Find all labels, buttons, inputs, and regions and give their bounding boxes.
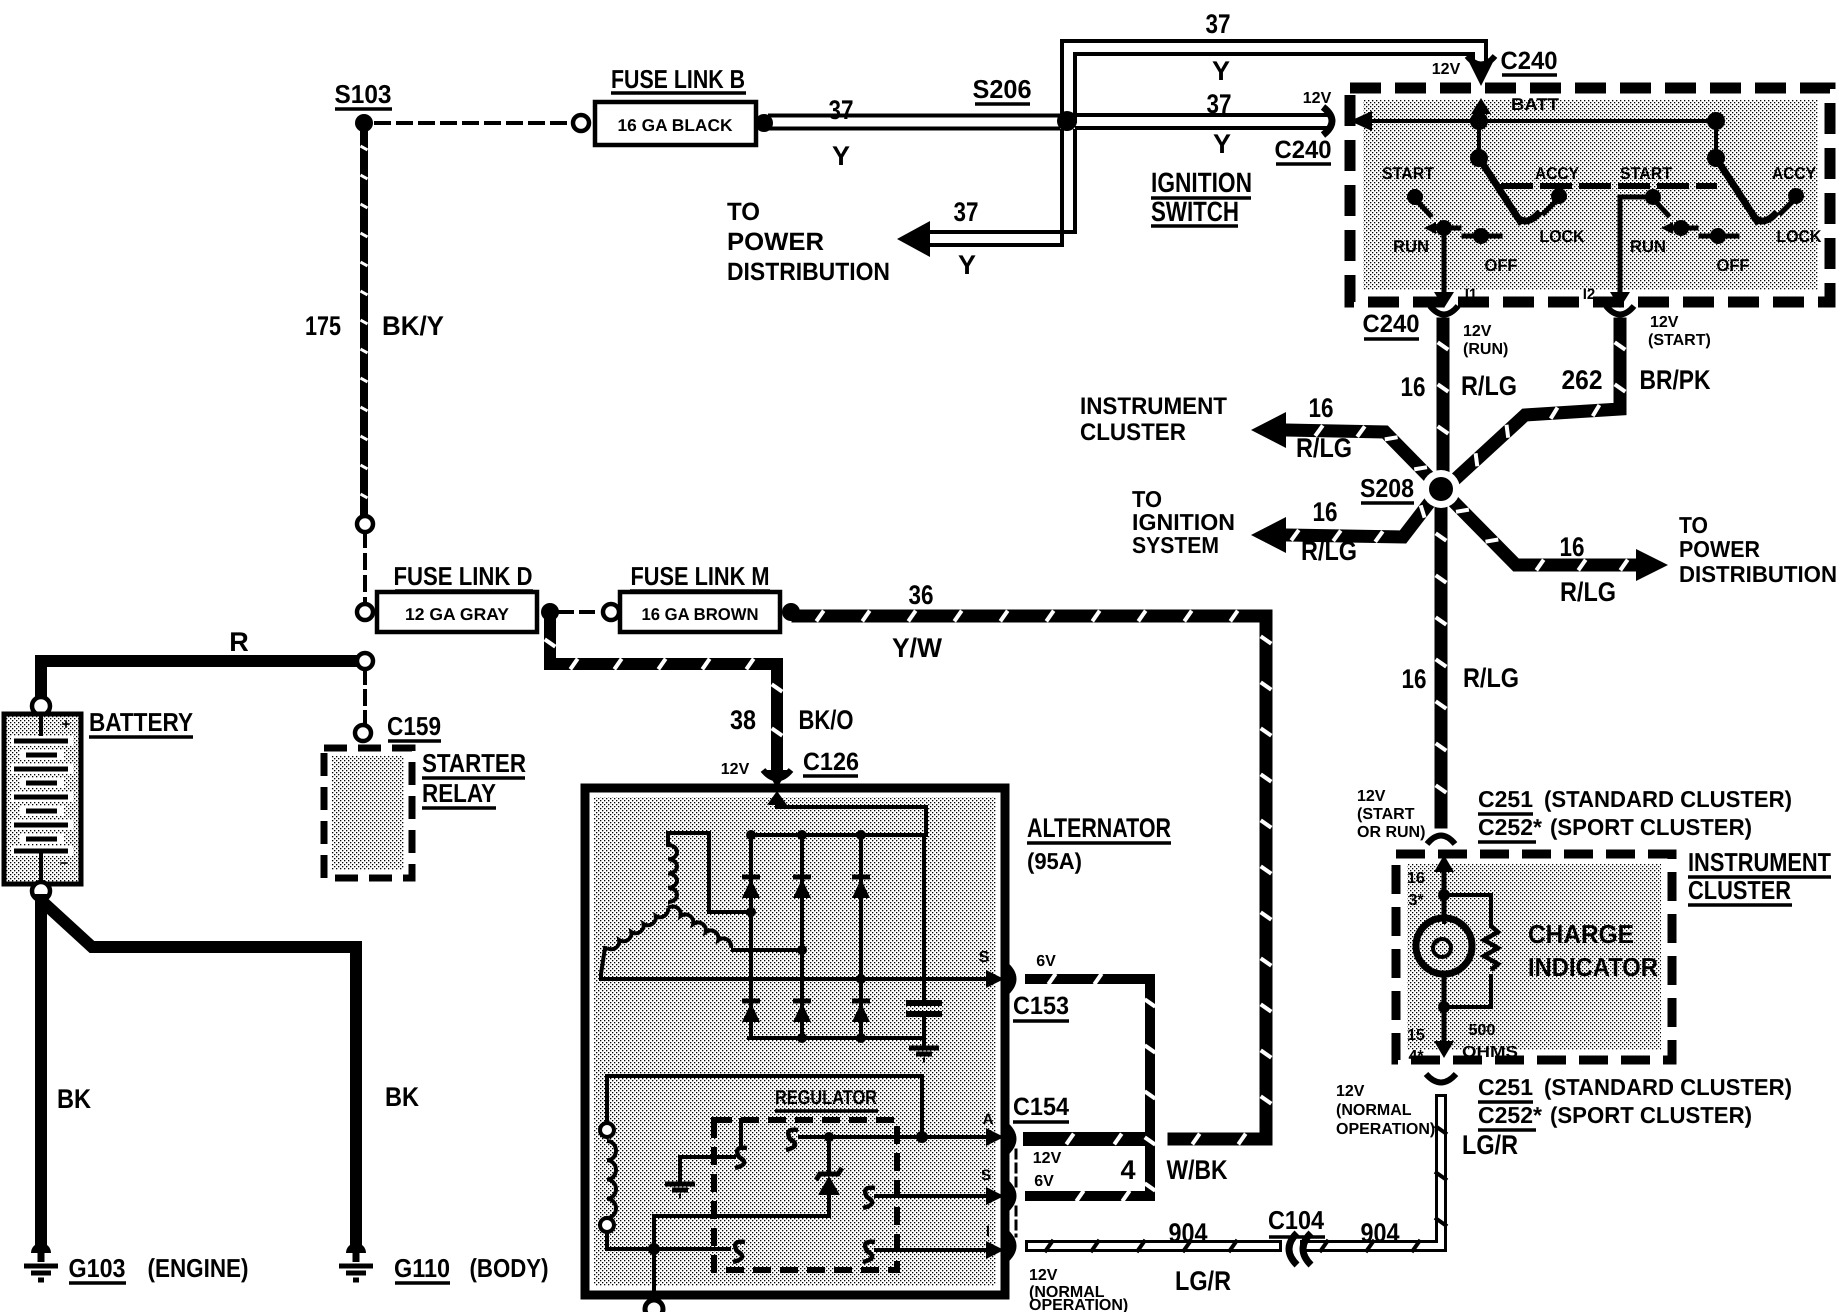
connector C240 bottom bbox=[1363, 306, 1635, 339]
svg-text:36: 36 bbox=[909, 580, 934, 610]
svg-text:CHARGE: CHARGE bbox=[1528, 919, 1634, 949]
label 37 Y lower bbox=[954, 197, 979, 280]
svg-text:LG/R: LG/R bbox=[1175, 1266, 1231, 1296]
fuse link D right terminal bbox=[541, 603, 559, 621]
svg-text:500: 500 bbox=[1469, 1022, 1496, 1039]
label 12V normal operation left bbox=[1029, 1267, 1128, 1312]
svg-text:16: 16 bbox=[1560, 532, 1585, 562]
svg-text:262: 262 bbox=[1562, 365, 1603, 395]
label 37 Y top bbox=[1206, 9, 1231, 86]
svg-text:16: 16 bbox=[1309, 393, 1334, 423]
svg-text:BK/O: BK/O bbox=[799, 705, 854, 735]
svg-text:R/LG: R/LG bbox=[1301, 536, 1357, 566]
svg-text:A: A bbox=[983, 1111, 994, 1128]
svg-text:INDICATOR: INDICATOR bbox=[1528, 952, 1658, 982]
svg-text:INSTRUMENT: INSTRUMENT bbox=[1080, 393, 1227, 420]
wire 37 Y S206 up to C240 top bbox=[1062, 41, 1486, 121]
svg-text:904: 904 bbox=[1361, 1218, 1400, 1248]
svg-text:SYSTEM: SYSTEM bbox=[1132, 532, 1219, 558]
fuse link M body bbox=[620, 592, 780, 632]
ignition switch left wiper bbox=[1479, 158, 1540, 221]
svg-text:12V: 12V bbox=[1463, 323, 1492, 340]
label to ignition system bbox=[1132, 486, 1235, 558]
connector C251 C252 lower bbox=[1426, 1074, 1792, 1130]
wire R battery to junction bbox=[41, 661, 355, 706]
label to power distribution (right) bbox=[1679, 512, 1837, 587]
field coil bbox=[600, 1123, 616, 1249]
svg-text:37: 37 bbox=[954, 197, 979, 227]
bulb to lower node bbox=[1438, 974, 1450, 1013]
wire dashed D to M bbox=[560, 610, 602, 614]
wire I2 inside switch bbox=[1610, 197, 1653, 308]
node A junction bbox=[916, 1131, 928, 1143]
arrow to power distribution (top) bbox=[897, 221, 930, 257]
diode column 1 bbox=[742, 835, 760, 1038]
fuse link M label bbox=[630, 561, 770, 591]
svg-text:BK: BK bbox=[57, 1084, 91, 1114]
label C159 bbox=[387, 711, 441, 741]
svg-text:12V: 12V bbox=[1029, 1267, 1058, 1284]
right RUN contact bbox=[1661, 220, 1696, 236]
wire 262 BR/PK from I2 bbox=[1449, 324, 1625, 485]
regulator S output curl bbox=[863, 1167, 1004, 1208]
wire 16 R/LG to instrument cluster bbox=[1251, 412, 1436, 484]
label 37 Y mid bbox=[1207, 89, 1232, 159]
svg-text:C159: C159 bbox=[387, 711, 441, 741]
wire dashed to fuse link D bbox=[363, 533, 367, 602]
svg-text:FUSE LINK D: FUSE LINK D bbox=[394, 561, 533, 591]
svg-text:(95A): (95A) bbox=[1027, 848, 1082, 874]
svg-text:R: R bbox=[229, 627, 249, 657]
svg-text:(ENGINE): (ENGINE) bbox=[148, 1253, 249, 1283]
svg-text:(START: (START bbox=[1357, 806, 1415, 823]
svg-text:R/LG: R/LG bbox=[1461, 371, 1517, 401]
alternator ground lead bbox=[652, 1252, 656, 1302]
starter relay label bbox=[422, 748, 526, 808]
svg-text:C104: C104 bbox=[1268, 1205, 1324, 1235]
left OFF contact bbox=[1464, 228, 1500, 244]
label 37 Y bbox=[829, 95, 854, 171]
svg-text:OR RUN): OR RUN) bbox=[1357, 824, 1425, 841]
svg-text:RELAY: RELAY bbox=[422, 778, 496, 808]
svg-text:16: 16 bbox=[1401, 372, 1426, 402]
svg-text:OFF: OFF bbox=[1717, 256, 1750, 275]
label 16 3* bbox=[1407, 870, 1425, 909]
ignition switch labels left bbox=[1382, 164, 1585, 275]
label 12V normal operation right bbox=[1336, 1083, 1435, 1138]
svg-text:BATT: BATT bbox=[1511, 95, 1560, 114]
svg-text:904: 904 bbox=[1169, 1218, 1208, 1248]
connector C251 C252 upper bbox=[1427, 786, 1792, 844]
svg-text:37: 37 bbox=[1207, 89, 1232, 119]
connector C154 bracket bbox=[1015, 1150, 1018, 1236]
svg-text:Y: Y bbox=[1212, 56, 1230, 86]
svg-text:OFF: OFF bbox=[1485, 256, 1518, 275]
left START contact bbox=[1407, 189, 1430, 215]
label BATT bbox=[1511, 95, 1560, 114]
alternator box bbox=[585, 788, 1005, 1295]
label instrument cluster (arrow) bbox=[1080, 393, 1227, 446]
svg-text:LOCK: LOCK bbox=[1540, 227, 1586, 246]
label 904 C104 bbox=[1169, 1205, 1400, 1296]
diode column 2 bbox=[793, 835, 811, 1038]
svg-text:C251: C251 bbox=[1478, 1074, 1533, 1100]
label R bbox=[229, 627, 249, 657]
label 16 R/LG upper bbox=[1401, 371, 1518, 402]
svg-text:12V: 12V bbox=[1357, 788, 1386, 805]
wire 175 BK/Y bbox=[361, 132, 368, 516]
wire 38 BK/O bbox=[545, 621, 783, 764]
label 262 BR/PK bbox=[1562, 365, 1711, 395]
svg-text:R/LG: R/LG bbox=[1560, 577, 1616, 607]
svg-text:TO: TO bbox=[727, 198, 760, 226]
svg-text:S103: S103 bbox=[335, 79, 392, 109]
svg-text:FUSE LINK M: FUSE LINK M bbox=[631, 561, 770, 591]
battery bbox=[4, 714, 81, 884]
svg-text:W/BK: W/BK bbox=[1167, 1155, 1228, 1185]
wire dashed S103 to fuse link B bbox=[376, 121, 568, 125]
svg-text:OPERATION): OPERATION) bbox=[1029, 1297, 1128, 1312]
label 4 W/BK bbox=[1120, 1155, 1227, 1185]
svg-text:(SPORT CLUSTER): (SPORT CLUSTER) bbox=[1550, 1102, 1752, 1128]
regulator internal wire bbox=[654, 1216, 829, 1244]
connector C154 pin I bbox=[1004, 1231, 1013, 1261]
ignition switch box bbox=[1350, 88, 1830, 302]
svg-text:ALTERNATOR: ALTERNATOR bbox=[1027, 813, 1171, 843]
svg-text:4: 4 bbox=[1120, 1155, 1135, 1185]
regulator I output curl bbox=[863, 1223, 1004, 1262]
svg-text:I1: I1 bbox=[1465, 286, 1478, 303]
label 12V C240 left bbox=[1275, 90, 1332, 164]
field supply wire from A node bbox=[607, 1076, 922, 1132]
svg-text:DISTRIBUTION: DISTRIBUTION bbox=[727, 258, 890, 286]
regulator ground branch bbox=[665, 1157, 734, 1196]
connector C154 pin 12V bbox=[1004, 1124, 1062, 1167]
svg-text:CLUSTER: CLUSTER bbox=[1080, 419, 1186, 446]
regulator bottom rail bbox=[607, 1242, 745, 1262]
svg-text:12V: 12V bbox=[1432, 61, 1461, 78]
label 12V C240 top bbox=[1432, 47, 1558, 78]
ignition switch left pivot bbox=[1470, 112, 1488, 167]
right START contact bbox=[1645, 189, 1668, 215]
svg-text:INSTRUMENT: INSTRUMENT bbox=[1688, 847, 1831, 877]
svg-text:I2: I2 bbox=[1583, 286, 1596, 303]
svg-text:12V: 12V bbox=[1650, 314, 1679, 331]
alternator ground terminal bbox=[645, 1300, 663, 1312]
left RUN contact bbox=[1424, 220, 1459, 236]
svg-text:STARTER: STARTER bbox=[422, 748, 526, 778]
wire 37 Y fuse link B to S206 bbox=[770, 116, 1058, 129]
regulator box bbox=[714, 1120, 897, 1270]
node S103 label bbox=[335, 79, 393, 109]
alternator internal ground bbox=[909, 1038, 939, 1060]
alternator rectifier top rail bbox=[746, 830, 926, 840]
svg-text:37: 37 bbox=[829, 95, 854, 125]
ignition switch right wiper bbox=[1716, 158, 1777, 221]
splice S206 label bbox=[973, 74, 1032, 104]
svg-text:(SPORT CLUSTER): (SPORT CLUSTER) bbox=[1550, 814, 1752, 840]
svg-text:BK/Y: BK/Y bbox=[382, 311, 444, 341]
svg-text:12V: 12V bbox=[721, 761, 750, 778]
svg-text:+: + bbox=[62, 716, 71, 733]
regulator label bbox=[775, 1087, 878, 1111]
svg-text:C240: C240 bbox=[1363, 310, 1420, 338]
fuse link D label bbox=[394, 561, 534, 591]
wire 37 Y S206 down to power distribution bbox=[930, 131, 1075, 245]
alternator B+ input wire bbox=[767, 791, 926, 833]
svg-text:S206: S206 bbox=[973, 74, 1032, 104]
ground G110 bbox=[339, 1243, 373, 1280]
fuse link B body bbox=[595, 102, 756, 145]
svg-text:6V: 6V bbox=[1034, 1173, 1054, 1190]
connector C159 terminal bbox=[355, 725, 371, 741]
node S103 bbox=[355, 114, 373, 132]
ignition switch batt feed bbox=[1350, 98, 1718, 131]
svg-text:C154: C154 bbox=[1013, 1093, 1069, 1121]
svg-text:12V: 12V bbox=[1033, 1150, 1062, 1167]
svg-text:3*: 3* bbox=[1408, 892, 1424, 909]
svg-text:POWER: POWER bbox=[1679, 536, 1760, 562]
wire 36 Y/W bbox=[798, 611, 1271, 1145]
svg-text:ACCY: ACCY bbox=[1535, 164, 1580, 183]
stator phase B winding bbox=[601, 906, 807, 974]
ground G103 bbox=[24, 1243, 58, 1280]
svg-text:(RUN): (RUN) bbox=[1463, 341, 1508, 358]
regulator transistor curl 1 bbox=[735, 1120, 747, 1168]
ignition switch labels right bbox=[1620, 164, 1822, 275]
wire I1 inside switch bbox=[1434, 232, 1454, 308]
connector C153 bbox=[1004, 953, 1069, 1021]
capacitor bbox=[906, 835, 942, 1038]
svg-text:BATTERY: BATTERY bbox=[89, 707, 193, 737]
svg-text:37: 37 bbox=[1206, 9, 1231, 39]
svg-text:TO: TO bbox=[1679, 512, 1708, 538]
cluster output wire bbox=[1434, 1007, 1454, 1058]
ignition switch right pivot bbox=[1707, 112, 1725, 167]
svg-text:6V: 6V bbox=[1036, 953, 1056, 970]
left ACCY contact bbox=[1544, 188, 1567, 213]
label 15 4* bbox=[1407, 1027, 1425, 1065]
zener diode bbox=[816, 1132, 842, 1216]
fuse link B left terminal bbox=[573, 115, 589, 131]
label 16 R/LG to power bbox=[1560, 532, 1617, 607]
svg-text:(BODY): (BODY) bbox=[470, 1253, 549, 1283]
svg-text:C153: C153 bbox=[1013, 992, 1069, 1020]
svg-text:S: S bbox=[981, 1167, 991, 1184]
svg-text:12V: 12V bbox=[1303, 90, 1332, 107]
svg-text:C252*: C252* bbox=[1478, 1102, 1542, 1128]
svg-text:Y/W: Y/W bbox=[892, 633, 943, 663]
svg-text:Y: Y bbox=[958, 250, 976, 280]
svg-text:CLUSTER: CLUSTER bbox=[1688, 875, 1791, 905]
label BK left bbox=[57, 1084, 91, 1114]
svg-text:BR/PK: BR/PK bbox=[1640, 365, 1711, 395]
svg-text:175: 175 bbox=[305, 311, 341, 341]
fuse link B label bbox=[611, 64, 746, 94]
fuse link D left terminal bbox=[357, 604, 373, 620]
starter relay box bbox=[324, 748, 412, 878]
label I1 I2 bbox=[1465, 286, 1596, 303]
fuse link B right terminal bbox=[755, 114, 773, 132]
wire 16 R/LG to ignition system bbox=[1251, 494, 1436, 553]
wire BK to G110 bbox=[44, 903, 356, 1243]
resistor 500 ohms bbox=[1444, 895, 1498, 1007]
label 36 Y/W bbox=[892, 580, 943, 663]
label 16 R/LG to cluster bbox=[1296, 393, 1352, 463]
svg-text:SWITCH: SWITCH bbox=[1151, 196, 1239, 227]
instrument cluster box bbox=[1396, 854, 1672, 1060]
wire 16 R/LG down to cluster bbox=[1436, 497, 1447, 822]
wire 37 Y S206 to C240 left bbox=[1077, 115, 1326, 128]
svg-text:Y: Y bbox=[1213, 129, 1231, 159]
svg-text:START: START bbox=[1382, 164, 1435, 183]
terminal circle below 175 wire bbox=[357, 516, 373, 532]
svg-text:15: 15 bbox=[1407, 1027, 1425, 1044]
connector C240 left entry bbox=[1323, 107, 1332, 135]
label 38 BK/O bbox=[730, 705, 854, 735]
mechanical linkage dashes bbox=[1504, 183, 1714, 189]
svg-text:OHMS: OHMS bbox=[1462, 1044, 1518, 1061]
cluster feed wire bbox=[1434, 855, 1454, 917]
label 16 R/LG lower bbox=[1402, 663, 1520, 694]
label 12V start or run bbox=[1357, 788, 1425, 841]
svg-text:START: START bbox=[1620, 164, 1673, 183]
svg-text:−: − bbox=[60, 855, 69, 872]
label G110 (BODY) bbox=[394, 1253, 549, 1283]
svg-text:C252*: C252* bbox=[1478, 814, 1542, 840]
splice S208 label bbox=[1360, 473, 1414, 503]
svg-text:16: 16 bbox=[1402, 664, 1427, 694]
right ACCY contact bbox=[1781, 188, 1804, 213]
svg-text:R/LG: R/LG bbox=[1296, 433, 1352, 463]
label LG/R right bbox=[1462, 1130, 1518, 1160]
svg-text:FUSE LINK B: FUSE LINK B bbox=[611, 64, 745, 94]
svg-text:C126: C126 bbox=[803, 748, 859, 776]
label ignition switch bbox=[1151, 167, 1252, 227]
svg-text:(STANDARD CLUSTER): (STANDARD CLUSTER) bbox=[1544, 1074, 1792, 1100]
wire 4 W/BK to C154 bbox=[1030, 1134, 1140, 1145]
svg-text:C240: C240 bbox=[1501, 47, 1558, 75]
svg-text:12 GA GRAY: 12 GA GRAY bbox=[405, 605, 510, 624]
svg-text:G110: G110 bbox=[394, 1253, 450, 1283]
svg-text:16 GA BLACK: 16 GA BLACK bbox=[618, 116, 734, 135]
svg-text:(START): (START) bbox=[1648, 332, 1711, 349]
svg-text:ACCY: ACCY bbox=[1772, 164, 1817, 183]
svg-text:I: I bbox=[986, 1223, 990, 1240]
svg-text:C251: C251 bbox=[1478, 786, 1533, 812]
svg-text:12V: 12V bbox=[1336, 1083, 1365, 1100]
connector C104 bbox=[1289, 1233, 1311, 1265]
svg-text:DISTRIBUTION: DISTRIBUTION bbox=[1679, 561, 1837, 587]
svg-text:REGULATOR: REGULATOR bbox=[775, 1087, 877, 1109]
svg-text:S208: S208 bbox=[1360, 473, 1414, 503]
svg-text:S: S bbox=[979, 949, 990, 966]
svg-text:RUN: RUN bbox=[1393, 237, 1429, 256]
label 175 BK/Y bbox=[305, 311, 444, 341]
svg-text:16: 16 bbox=[1407, 870, 1425, 887]
label to power distribution (top) bbox=[727, 198, 890, 286]
fuse link M right terminal bbox=[782, 603, 800, 621]
connector C154 pin 6V bbox=[1004, 1173, 1054, 1211]
svg-text:16 GA BROWN: 16 GA BROWN bbox=[642, 605, 759, 624]
svg-text:POWER: POWER bbox=[727, 228, 824, 256]
charge indicator bulb bbox=[1416, 918, 1472, 974]
label 16 R/LG to ignition bbox=[1301, 497, 1357, 566]
charge indicator label bbox=[1528, 919, 1658, 982]
label C154 bbox=[1013, 1093, 1069, 1122]
alternator A output bbox=[928, 1111, 1004, 1146]
svg-text:(STANDARD CLUSTER): (STANDARD CLUSTER) bbox=[1544, 786, 1792, 812]
wire BK to G103 bbox=[35, 900, 47, 1243]
stator phase C / S output bbox=[601, 949, 1004, 988]
svg-text:C240: C240 bbox=[1275, 136, 1332, 164]
connector C126 bbox=[721, 748, 859, 788]
svg-text:(NORMAL: (NORMAL bbox=[1336, 1102, 1412, 1119]
label 12V RUN bbox=[1463, 323, 1508, 358]
regulator input from A bbox=[786, 1130, 916, 1150]
svg-text:R/LG: R/LG bbox=[1463, 663, 1519, 693]
fuse link D body bbox=[377, 592, 537, 632]
right OFF contact bbox=[1701, 228, 1737, 244]
svg-text:BK: BK bbox=[385, 1082, 419, 1112]
battery label bbox=[89, 707, 193, 737]
label G103 (ENGINE) bbox=[69, 1253, 249, 1283]
svg-text:Y: Y bbox=[832, 141, 850, 171]
label 500 OHMS bbox=[1462, 1022, 1518, 1061]
label BK right bbox=[385, 1082, 419, 1112]
svg-text:RUN: RUN bbox=[1630, 237, 1666, 256]
svg-text:G103: G103 bbox=[69, 1253, 126, 1283]
connector C240 top entry bbox=[1467, 56, 1495, 86]
wire C153 to C154 bbox=[1030, 974, 1155, 1202]
instrument cluster label bbox=[1688, 847, 1831, 905]
alternator label bbox=[1027, 813, 1171, 874]
svg-text:LOCK: LOCK bbox=[1777, 227, 1823, 246]
battery bottom terminal bbox=[32, 882, 50, 900]
splice S208 bbox=[1422, 470, 1460, 508]
wire 16 R/LG from I1 bbox=[1438, 324, 1449, 478]
svg-text:38: 38 bbox=[730, 705, 756, 735]
label 12V START bbox=[1648, 314, 1711, 349]
fuse link M left terminal bbox=[603, 604, 619, 620]
wire 16 R/LG to power distribution bbox=[1447, 495, 1668, 581]
svg-text:LG/R: LG/R bbox=[1462, 1130, 1518, 1160]
battery top terminal bbox=[32, 697, 50, 715]
junction circle R wire bbox=[357, 653, 373, 669]
diode column 3 bbox=[852, 835, 870, 1038]
svg-text:OPERATION): OPERATION) bbox=[1336, 1121, 1435, 1138]
svg-text:4*: 4* bbox=[1408, 1048, 1424, 1065]
wire 904 LG/R bbox=[1031, 1100, 1447, 1252]
stator phase A coil bbox=[668, 833, 756, 917]
splice S206 bbox=[1057, 111, 1077, 131]
wire dashed to C159 bbox=[363, 670, 367, 724]
svg-text:16: 16 bbox=[1313, 497, 1338, 527]
svg-text:IGNITION: IGNITION bbox=[1151, 167, 1252, 198]
rectifier bottom rail bbox=[749, 1033, 924, 1043]
